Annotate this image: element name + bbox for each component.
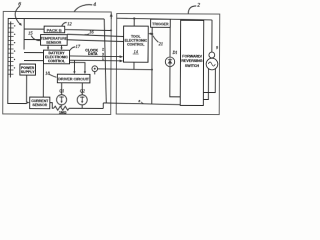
svg-text:21: 21 — [159, 41, 164, 46]
svg-text:CONTROL: CONTROL — [127, 43, 145, 47]
wire tool control to rail — [133, 19, 135, 27]
junction dot trigger and node wire — [151, 69, 153, 71]
resistor 1M — [54, 106, 69, 110]
box BATTERY ELECTRONIC CONTROL 17 — [43, 50, 69, 64]
label 4 — [93, 1, 96, 8]
arrows temperature sensor to battery control — [47, 45, 49, 48]
wire 16 pack data line — [67, 34, 124, 36]
label 21 — [159, 41, 164, 46]
motor terminal — [209, 52, 215, 58]
svg-text:8: 8 — [138, 99, 140, 103]
bottom interconnect wire to tool — [103, 103, 180, 105]
svg-text:PACK B: PACK B — [47, 27, 62, 32]
terminal dots — [14, 25, 16, 68]
leader to label 2 — [188, 6, 196, 14]
leader to terminal strip 6 — [15, 6, 21, 25]
leader to label 4 — [74, 5, 92, 12]
box PACK B 12 — [44, 26, 65, 33]
arrow into current sensor — [27, 102, 29, 104]
wire Q1 to resistor — [61, 105, 63, 107]
svg-text:15: 15 — [28, 31, 33, 36]
box TEMPERATURE SENSOR 15 — [41, 35, 68, 46]
svg-text:3: 3 — [102, 53, 104, 57]
svg-text:CONTROL: CONTROL — [48, 59, 66, 63]
motor leads — [203, 69, 208, 100]
label CLOCK — [85, 48, 98, 52]
label Q1 — [59, 88, 64, 93]
svg-text:Q2: Q2 — [80, 89, 85, 94]
wire rail to bottom interconnect — [102, 103, 104, 108]
label Q2 — [80, 89, 85, 94]
svg-text:16: 16 — [89, 29, 94, 34]
label 16 — [89, 29, 94, 34]
pin number 2 — [102, 47, 104, 51]
wire trigger box to diode D1 — [169, 27, 171, 57]
leader to 17 — [70, 47, 75, 51]
wire PACK B to pack rail — [65, 29, 112, 32]
wire tool control bottom — [133, 62, 135, 69]
pin number 3 — [102, 53, 104, 57]
transistor Q2 — [77, 95, 87, 105]
box DRIVER CIRCUIT 18 — [57, 74, 90, 83]
pin number 1 — [102, 57, 104, 61]
svg-text:TRIGGER: TRIGGER — [152, 22, 169, 26]
wire battery control to current sensor — [42, 64, 44, 97]
wires connector to battery control — [24, 52, 43, 54]
svg-text:1MΩ: 1MΩ — [59, 111, 67, 115]
box POWER SUPPLY — [20, 64, 36, 75]
svg-text:SENSOR: SENSOR — [32, 103, 47, 107]
terminal strip 6 — [9, 21, 11, 77]
svg-text:DATA: DATA — [88, 52, 98, 56]
label 1M ohm — [59, 111, 67, 115]
leader to interconnect — [141, 102, 143, 104]
diode D1 — [165, 57, 174, 66]
node B+ terminal — [92, 66, 98, 72]
junction dot on rail — [133, 17, 135, 19]
svg-text:14: 14 — [134, 49, 138, 54]
wire Q2 to rail — [81, 105, 83, 108]
svg-text:17: 17 — [76, 44, 81, 49]
svg-text:9: 9 — [216, 45, 218, 50]
label 6 — [18, 2, 21, 8]
leader to driver circuit — [49, 74, 57, 77]
svg-text:4: 4 — [93, 1, 96, 8]
wire DATA to tool control — [69, 59, 120, 62]
terminal ticks — [7, 24, 13, 74]
label D1 — [172, 50, 178, 55]
wire connector to PACK B — [24, 28, 44, 30]
box TOOL ELECTRONIC CONTROL 14 — [123, 26, 148, 62]
leader to 15 — [31, 36, 40, 41]
label 8 on interconnect — [138, 99, 140, 103]
label 17 — [76, 44, 81, 49]
battery pack enclosure 4 — [3, 11, 112, 114]
label 9 — [216, 45, 218, 50]
wire driver to Q2 — [81, 83, 83, 95]
wires battery control to driver circuit — [73, 60, 75, 72]
wire CLOCK to tool control — [70, 55, 121, 58]
leader to 12 — [62, 22, 67, 26]
motor M 9 — [206, 58, 218, 70]
wire resistor to rail — [69, 107, 103, 109]
svg-text:SENSOR: SENSOR — [46, 41, 62, 45]
label DATA — [88, 52, 98, 56]
svg-text:2: 2 — [102, 47, 104, 51]
tool supply rail — [117, 18, 212, 20]
pack B+ arrow on enclosure edge — [110, 14, 112, 18]
label 18 — [45, 70, 50, 75]
transistor Q1 — [57, 95, 67, 105]
wire trigger down — [151, 27, 153, 104]
svg-text:DRIVER CIRCUIT: DRIVER CIRCUIT — [58, 77, 89, 81]
junction dot trigger wire — [151, 33, 153, 35]
wire D1 to forward reversing switch — [170, 67, 181, 97]
svg-text:D1: D1 — [172, 50, 178, 55]
box TRIGGER — [151, 19, 171, 27]
connector bay divider — [23, 19, 25, 50]
box FORWARD REVERSING SWITCH — [180, 20, 203, 105]
label 15 — [28, 31, 33, 36]
svg-text:FORWARD/: FORWARD/ — [182, 54, 202, 58]
inner pc-board box of pack — [8, 18, 104, 104]
box CURRENT SENSOR — [30, 97, 50, 109]
svg-text:SWITCH: SWITCH — [185, 64, 200, 68]
tool enclosure 2 — [116, 14, 220, 115]
arrow trigger wire into tool control — [150, 33, 152, 35]
pack inner rail — [104, 19, 107, 103]
wire current sensor to resistor — [50, 103, 54, 109]
svg-text:12: 12 — [67, 21, 72, 26]
wire node to trigger line — [98, 68, 152, 71]
junction dot — [110, 29, 112, 31]
leader to 21 — [153, 36, 158, 43]
svg-text:REVERSING: REVERSING — [181, 59, 202, 63]
svg-text:1: 1 — [102, 57, 104, 61]
wire temperature sensor to tool — [67, 40, 124, 42]
label 2 — [197, 2, 200, 8]
leader to wire 16 — [85, 34, 89, 35]
wire rail to motor — [211, 20, 213, 52]
svg-text:SUPPLY: SUPPLY — [21, 70, 35, 74]
wire connector to temperature sensor — [24, 39, 40, 41]
wire power supply to current sensor — [26, 75, 28, 102]
svg-text:Q1: Q1 — [59, 88, 64, 93]
wire node to driver circuit — [94, 72, 96, 75]
svg-text:2: 2 — [197, 2, 200, 8]
wire driver to Q1 — [61, 83, 63, 95]
label 12 — [67, 21, 72, 26]
